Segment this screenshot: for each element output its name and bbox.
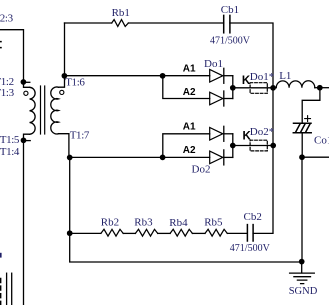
svg-text:Do1*: Do1* [250,71,274,83]
wire L1 to right edge output [315,87,329,89]
dashed box Do1* [250,83,267,94]
transformer core line right [44,86,46,134]
resistor Rb4 [170,229,192,236]
svg-text:Do2: Do2 [192,163,211,175]
diode Do1 upper A2 triangle [210,92,223,105]
wire Co1 bottom to output minus node [301,133,303,158]
node output minus junction dot [299,154,305,160]
wire left-edge to T1:2 node (horizontal then vertical) [0,30,24,80]
right winding phasing dot circle [60,90,64,94]
node upper cathode junction dot [230,85,236,91]
inductor L1 [273,81,315,88]
svg-text:T1:5: T1:5 [0,134,20,146]
svg-text:Rb4: Rb4 [169,217,188,229]
transformer core line left [40,86,42,134]
wire T1:7 node to lower diode pair [70,156,163,158]
svg-text:Rb1: Rb1 [112,7,130,19]
svg-text:Do1: Do1 [204,58,223,70]
wire lower A1 cathode stub [224,133,233,135]
svg-text:T1:3: T1:3 [0,87,15,99]
dashed box Do2* [250,140,267,151]
svg-text:A2: A2 [183,145,196,156]
wire lower branch up to A1 row [163,134,210,158]
svg-text:T1:7: T1:7 [70,129,90,141]
wire T1:6 to upper diode pair anodes [65,75,163,77]
capacitor Co1 hatch stroke 1 [296,124,301,132]
svg-text:471/500V: 471/500V [210,36,251,47]
node upper anode junction dot [160,73,166,79]
wire upper A1 cathode stub [224,75,233,77]
node Rb2 row junction dot [67,230,73,236]
wire Rb2 row left segment [70,232,101,234]
svg-text:L1: L1 [279,70,291,82]
capacitor Cb2 left plate [246,225,248,241]
pin tick T1:2 [23,81,29,83]
wire upper branch down to A2 row [163,76,210,99]
capacitor Co1 top plate [294,122,312,124]
svg-text:Cb2: Cb2 [244,211,262,223]
wire Cb1 to right bus corner [230,23,273,85]
svg-text:A2: A2 [183,87,196,98]
wire upper A2 cathode stub [224,98,233,100]
capacitor Cb1 right plate [229,15,231,32]
node lower cathode junction dot [230,143,236,149]
wire lower A2 anode row [163,156,210,158]
wire Rb1 to Cb1 [128,22,223,24]
wire T1:6 node down into right winding top [59,76,65,87]
wire T1:2 dot into left winding top [24,82,30,87]
node T1:5 junction dot [21,137,27,143]
wire upper K node to bus [233,87,273,89]
left winding phasing dot circle [24,91,28,95]
svg-text:Do2*: Do2* [250,126,274,138]
svg-text:Rb5: Rb5 [204,217,223,229]
wire upper A1 anode row [163,75,210,77]
fragment blue character at left edge y253 [0,253,2,258]
svg-text:Co1: Co1 [314,134,329,146]
svg-text:SGND: SGND [289,286,318,297]
diode Do2 lower A2 cathode bar [223,150,225,165]
wire Rb2 to Rb3 [123,232,135,234]
wire bus down to Cb2 right side [253,146,273,234]
wire lower K node to bus [233,145,273,147]
node T1:2 junction dot [21,79,27,85]
wire Rb2 row corner down to bottom rail [70,233,302,262]
ground symbol SGND [301,262,303,273]
wire Rb3 to Rb4 [158,232,170,234]
wire Rb4 to Rb5 [192,232,205,234]
wire T1:7 node down to Rb2 row [69,158,71,231]
fragment dashed line bottom-left edge [0,279,2,305]
svg-text:Rb2: Rb2 [101,217,119,229]
svg-text:T2:3: T2:3 [0,13,14,25]
diode Do2 lower A2 triangle [210,151,223,164]
wire upper cathode connector [232,76,234,99]
wire T1:6 up to Rb1 row [64,23,66,76]
resistor Rb1 [112,20,129,27]
wire output minus to right edge [302,156,329,158]
node T1:6 junction dot [62,73,68,79]
diode Do2 lower A1 triangle [210,128,223,141]
wire T1:5 down to bottom edge [23,140,25,305]
wire output minus node down to ground node [301,157,303,261]
diode Do1 upper A1 triangle [210,70,223,83]
wire L1 node down to Co1 top [302,88,320,123]
wire bus between K nodes [272,88,274,146]
diode Do1 upper A2 cathode bar [223,91,225,106]
svg-text:T1:4: T1:4 [0,146,20,158]
node L1 output junction dot [317,85,323,91]
capacitor Cb2 right plate [252,225,254,241]
svg-text:T1:6: T1:6 [65,77,85,89]
resistor Rb2 [101,229,123,236]
wire Rb5 to Cb2 [227,232,247,234]
diode Do2 lower A1 cathode bar [223,126,225,141]
svg-text:Rb3: Rb3 [134,217,153,229]
wire lower A2 cathode stub [224,156,233,158]
svg-text:471/500V: 471/500V [230,243,271,254]
svg-text:Cb1: Cb1 [221,4,239,16]
transformer T1 primary left winding [30,87,36,134]
node SGND junction dot [299,259,305,265]
capacitor Co1 bottom plate [293,132,311,134]
resistor Rb5 [205,229,227,236]
fragment vertical line bottom-left 2 [11,273,13,305]
capacitor Co1 hatch stroke 3 [306,124,311,132]
capacitor Co1 hatch stroke 2 [301,124,306,132]
wire Rb1 row left segment [65,22,112,24]
capacitor Co1 plus sign [305,116,311,122]
node T1:7 junction dot [67,155,73,161]
node K-Do1 bus junction dot [270,85,276,91]
wire right winding bottom to T1:7 node [59,134,69,155]
transformer T1 secondary right winding [51,87,59,134]
node K-Do2 bus junction dot [270,143,276,149]
pin tick T1:5 [23,140,30,142]
fragment colon of cut label at left edge y41 [0,42,1,48]
wire lower cathode connector [232,134,234,158]
fragment vertical line bottom-left 1 [6,273,8,305]
resistor Rb3 [135,229,157,236]
svg-text:A1: A1 [183,121,196,132]
wire left winding bottom to T1:5 node [24,134,30,137]
svg-text:A1: A1 [183,64,196,75]
capacitor Cb1 left plate [223,15,225,32]
diode Do1 upper A1 cathode bar [223,68,225,83]
node lower anode junction dot [160,155,166,161]
